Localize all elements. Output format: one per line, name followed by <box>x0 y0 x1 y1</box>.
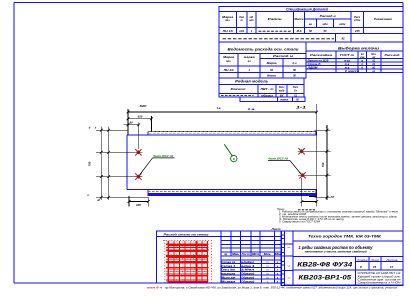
svg-text:Расх: Расх <box>354 15 361 19</box>
svg-text:Выборка мелочи: Выборка мелочи <box>338 46 379 50</box>
svg-text:ви: ви <box>309 23 313 26</box>
svg-text:кУби: кУби <box>354 18 361 22</box>
svg-text:т-в: т-в <box>345 66 350 69</box>
svg-text:Масса: Масса <box>295 17 305 21</box>
svg-text:1 ряды свайных ростов по объек: 1 ряды свайных ростов по объекту <box>299 245 374 250</box>
svg-text:пр.Митирина, г.Свердловск-АО-Ч: пр.Митирина, г.Свердловск-АО-ЧМ. ул.Заво… <box>165 286 398 290</box>
svg-text:шт: шт <box>249 19 254 22</box>
svg-text:Район: Район <box>268 17 283 21</box>
svg-text:17: 17 <box>390 265 394 269</box>
svg-text:койд: койд <box>279 89 285 92</box>
svg-text:б-н: б-н <box>292 61 296 65</box>
svg-text:Р: Р <box>360 265 362 269</box>
svg-text:1-1: 1-1 <box>296 106 306 110</box>
svg-text:245: 245 <box>354 29 360 33</box>
svg-text:790: 790 <box>321 162 325 167</box>
svg-text:Раскол: Раскол <box>231 87 246 91</box>
svg-text:Гост: Гост <box>242 253 250 256</box>
svg-text:Итого: Итого <box>267 74 276 78</box>
svg-text:наполнение и масть отделов све: наполнение и масть отделов сведений <box>305 251 368 254</box>
svg-text:15: 15 <box>373 265 377 269</box>
svg-text:Ммь: Ммь <box>264 253 272 256</box>
svg-text:ПН-1б: ПН-1б <box>223 29 233 33</box>
svg-text:Мт: Мт <box>252 253 259 256</box>
svg-text:620: 620 <box>140 104 148 108</box>
svg-text:Кол: Кол <box>239 15 244 19</box>
svg-text:Мымам: Мымам <box>221 279 236 283</box>
svg-text:Техно городок ТМК. КЖ 03-ТМК: Техно городок ТМК. КЖ 03-ТМК <box>308 235 382 239</box>
svg-text:КВ203-ВР1-05: КВ203-ВР1-05 <box>298 276 352 282</box>
svg-text:Ул: Ул <box>294 89 298 92</box>
svg-text:Свердловэнерго г.Ч-ОЧ: Свердловэнерго г.Ч-ОЧ <box>358 282 402 285</box>
svg-text:л: л <box>86 194 89 197</box>
svg-text:Лист: Лист <box>370 259 379 262</box>
svg-text:57: 57 <box>331 195 335 199</box>
svg-text:поз.: поз. <box>225 19 230 22</box>
svg-text:мд: мд <box>250 15 254 19</box>
svg-text:кО1: кО1 <box>239 29 244 33</box>
svg-text:Рядная модель: Рядная модель <box>235 80 268 84</box>
svg-text:ПН-1б: ПН-1б <box>224 68 235 72</box>
svg-text:коби: коби <box>339 22 345 26</box>
svg-text:поз.: поз. <box>226 60 231 63</box>
svg-text:б20: б20 <box>138 115 143 119</box>
svg-text:б: б <box>233 157 235 161</box>
svg-text:ПВТ - т: ПВТ - т <box>261 87 275 91</box>
svg-text:1-а: 1-а <box>248 107 255 111</box>
svg-text:тел 8-ч: тел 8-ч <box>147 286 163 290</box>
svg-text:эл: эл <box>248 60 251 63</box>
svg-text:Листов: Листов <box>385 259 398 262</box>
svg-text:4шт.Ø12 АI: 4шт.Ø12 АI <box>152 154 173 158</box>
svg-text:Размечание: Размечание <box>374 17 392 21</box>
svg-text:лама: лама <box>279 99 289 102</box>
svg-text:Марка: Марка <box>222 15 234 19</box>
svg-text:50: 50 <box>309 29 312 33</box>
svg-text:ГОСТ-т: ГОСТ-т <box>340 53 355 57</box>
svg-text:Марка: Марка <box>267 61 278 65</box>
svg-text:Расч.вид: Расч.вид <box>385 53 401 57</box>
svg-text:б00: б00 <box>136 203 141 207</box>
svg-text:4шт.Ø12 АI: 4шт.Ø12 АI <box>267 157 288 161</box>
svg-text:Лист: Лист <box>270 227 281 231</box>
svg-text:Обрезной: Обрезной <box>241 279 254 283</box>
svg-text:Ммь: Ммь <box>232 253 240 256</box>
svg-text:КВ28-Ф8 ФУ34: КВ28-Ф8 ФУ34 <box>297 262 353 268</box>
svg-text:Расход н: Расход н <box>320 14 336 18</box>
svg-text:50: 50 <box>324 29 327 33</box>
svg-text:Стадия: Стадия <box>357 259 368 262</box>
svg-text:М-б: М-б <box>297 29 302 33</box>
svg-text:Расход м: Расход м <box>273 54 293 58</box>
svg-text:л: л <box>325 126 328 129</box>
svg-text:Раскладка: Раскладка <box>310 53 333 57</box>
svg-text:марка: марка <box>244 56 256 59</box>
svg-text:Ведомость расхода осн. стали: Ведомость расхода осн. стали <box>228 48 299 52</box>
svg-text:92: 92 <box>341 37 345 41</box>
svg-text:х0: х0 <box>96 198 100 202</box>
svg-text:5. Сварку вести по ГОСТ 5264: 5. Сварку вести по ГОСТ 5264 <box>279 220 321 223</box>
svg-text:ЛДВМ: ЛДВМ <box>306 66 319 69</box>
svg-text:Мм: Мм <box>275 253 281 256</box>
svg-text:Марка: Марка <box>223 55 235 59</box>
svg-text:изм: изм <box>360 56 365 59</box>
svg-text:Σ масса: Σ масса <box>344 70 360 73</box>
svg-text:Расход стали на сетку: Расход стали на сетку <box>164 232 209 236</box>
svg-text:790: 790 <box>88 161 92 166</box>
svg-text:1-в: 1-в <box>216 106 220 110</box>
svg-text:мби: мби <box>322 22 328 26</box>
svg-text:Спецификация Деталей: Спецификация Деталей <box>286 8 329 12</box>
